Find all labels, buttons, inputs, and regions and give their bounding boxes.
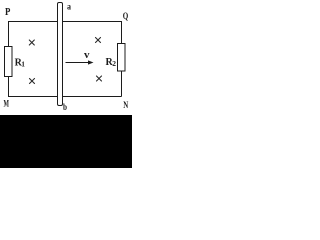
svg-text:2: 2	[112, 59, 116, 68]
bottom black band	[0, 115, 132, 168]
svg-text:N: N	[123, 100, 128, 110]
resistor R1	[5, 47, 13, 77]
svg-text:a: a	[67, 1, 71, 11]
field cross 4	[97, 76, 102, 81]
svg-text:Q: Q	[123, 11, 129, 21]
resistor R2	[118, 44, 126, 72]
svg-text:P: P	[5, 6, 11, 18]
svg-text:1: 1	[21, 59, 25, 68]
sliding rod ab	[58, 3, 63, 106]
wire top PQ	[8, 21, 122, 23]
field cross 1	[29, 40, 34, 45]
wire right QN	[121, 21, 123, 97]
field cross 3	[96, 38, 101, 43]
svg-text:M: M	[4, 99, 10, 109]
wire bottom MN	[8, 96, 122, 98]
velocity arrow	[66, 62, 91, 64]
svg-text:b: b	[63, 102, 67, 112]
white background	[0, 0, 132, 168]
svg-text:v: v	[84, 50, 90, 61]
wire left PM	[8, 21, 10, 97]
field cross 2	[30, 79, 35, 84]
